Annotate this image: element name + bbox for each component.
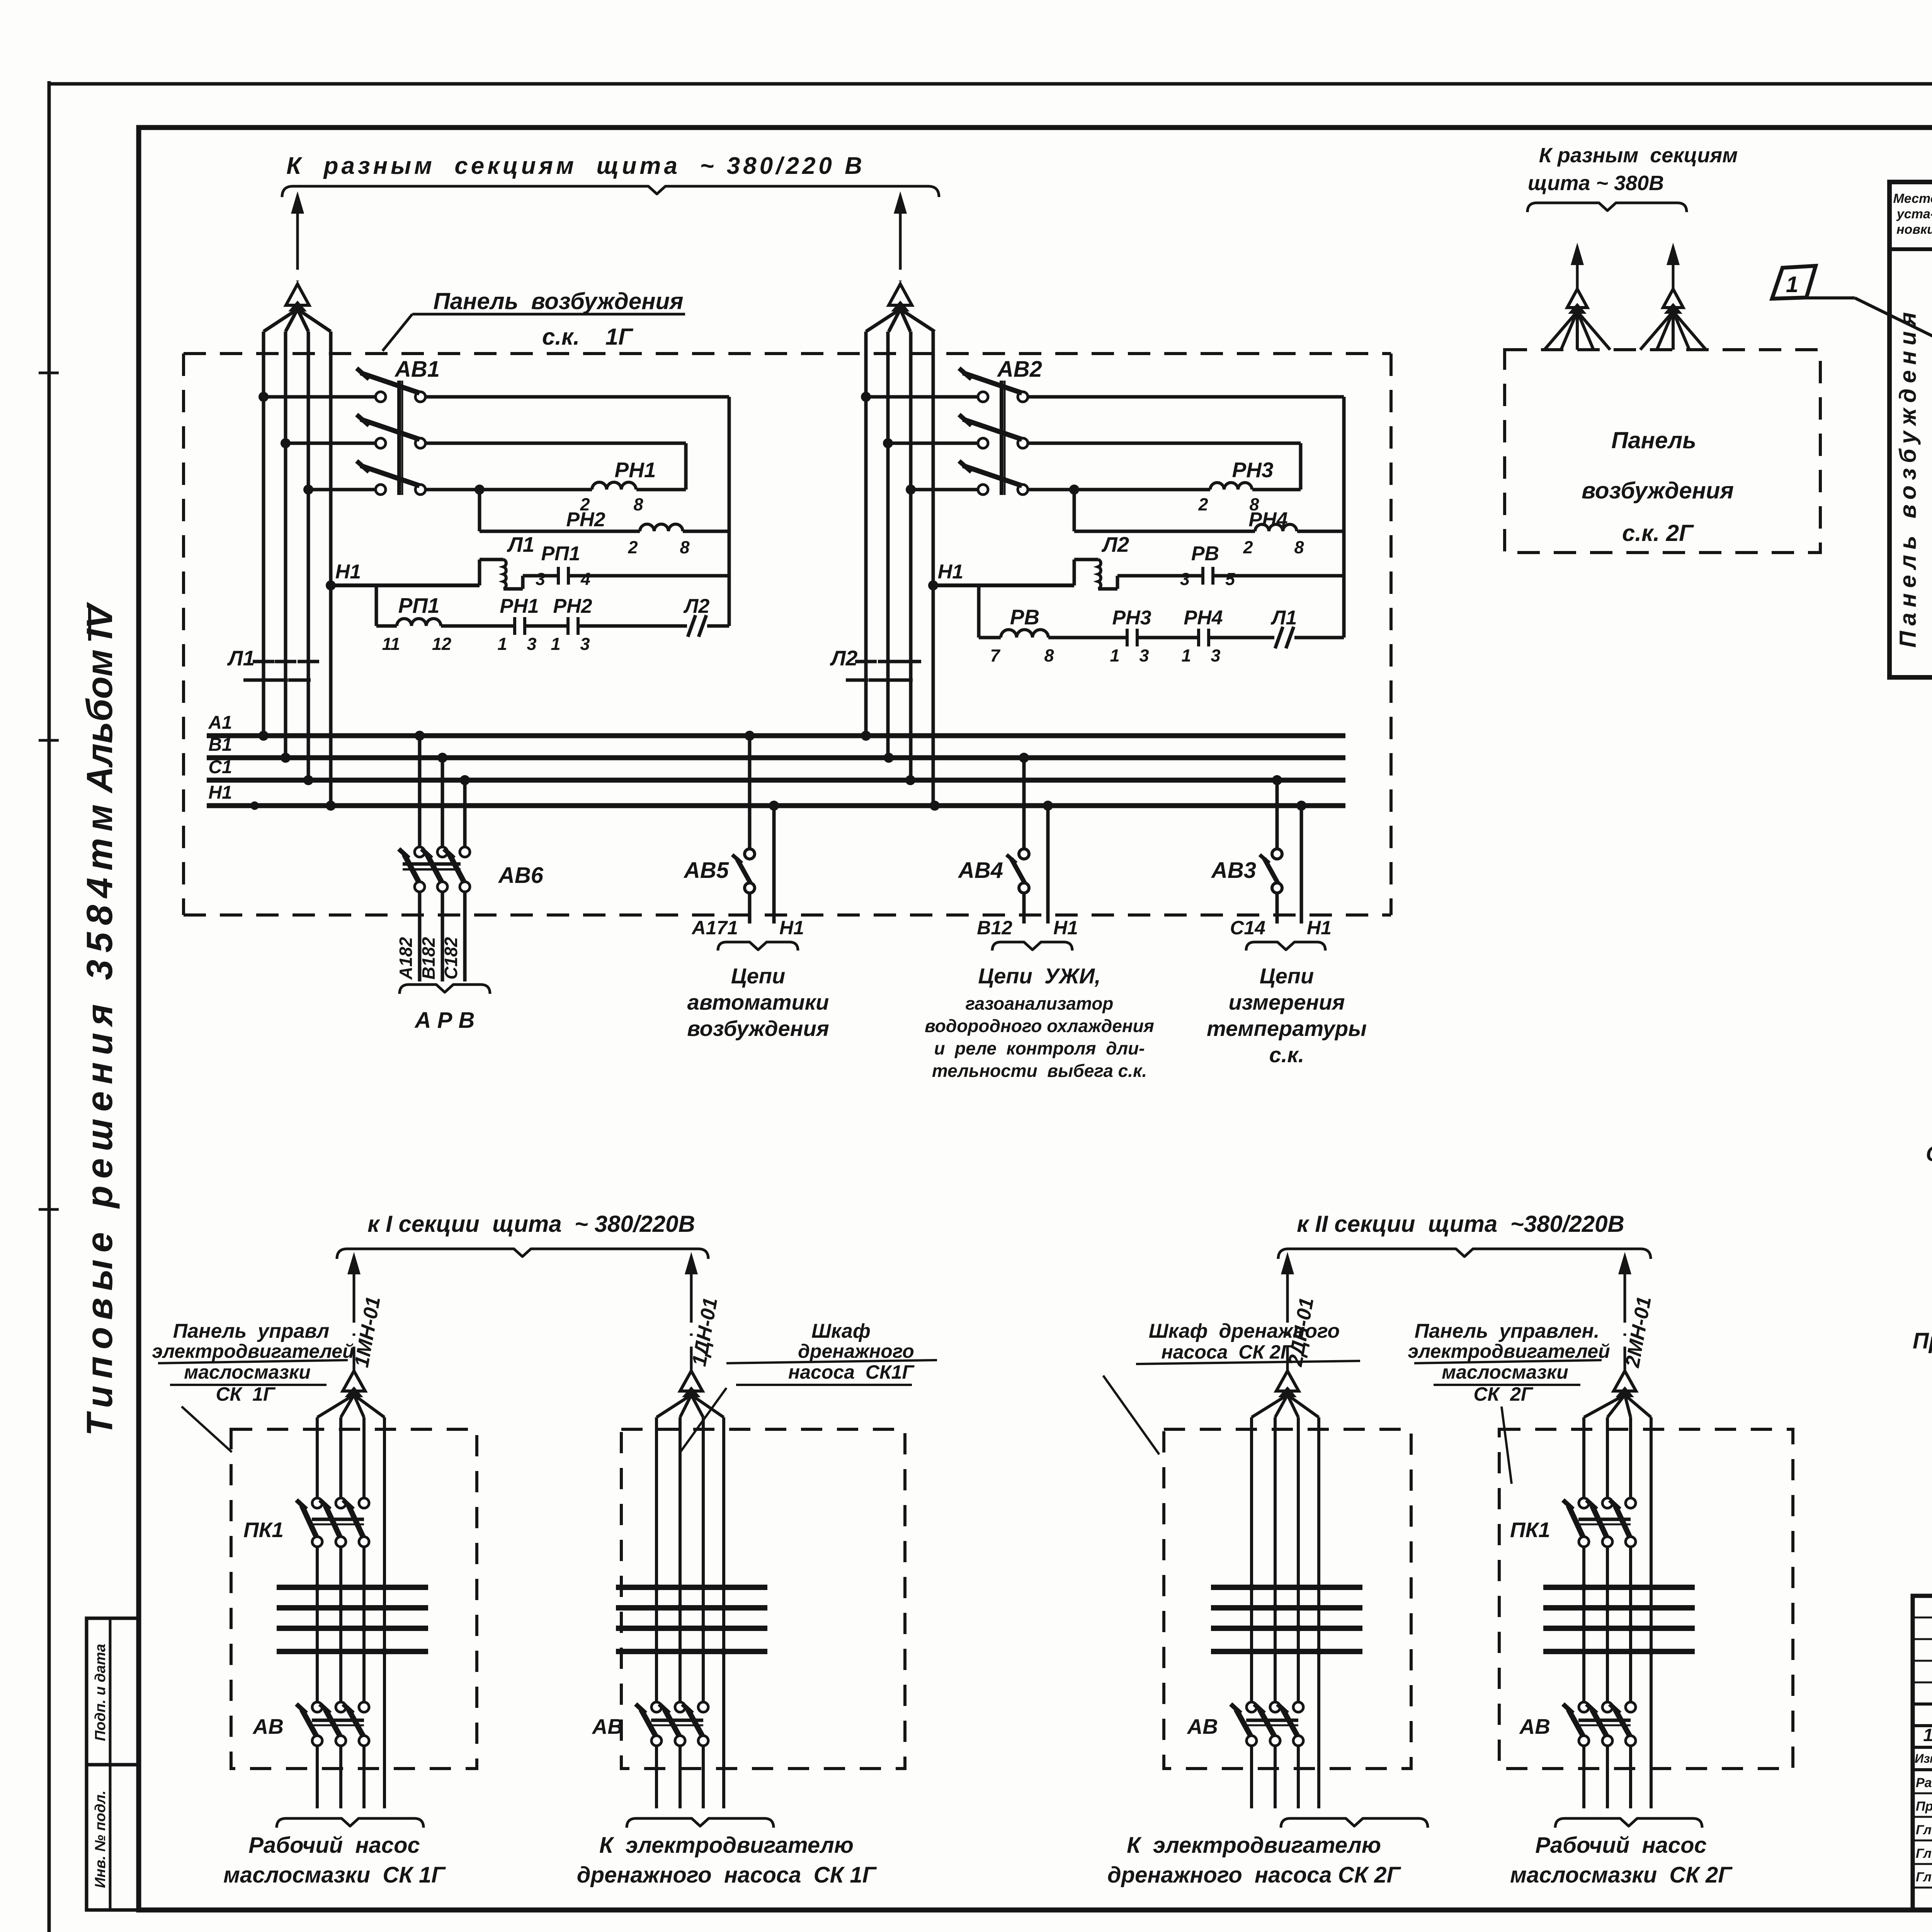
- svg-text:уста-: уста-: [1896, 207, 1932, 221]
- feeder arrow 1 (to switchboard sections): [291, 191, 304, 214]
- feeder fan wires: [1584, 1395, 1625, 1417]
- svg-text:4: 4: [580, 569, 590, 589]
- svg-text:СК 2Г: СК 2Г: [1473, 1383, 1533, 1405]
- feeder fan wires: [317, 1395, 354, 1417]
- left margin registration ticks: [39, 739, 59, 742]
- svg-text:См. примеч. 1: См. примеч. 1: [1926, 1141, 1932, 1166]
- svg-text:К электродвигателю: К электродвигателю: [599, 1833, 854, 1858]
- brace АВ4: [992, 942, 1072, 951]
- thermal overload bars: [616, 1585, 767, 1590]
- svg-text:1: 1: [497, 634, 507, 654]
- svg-text:Н1: Н1: [938, 561, 963, 583]
- svg-text:Примечание:: Примечание:: [1913, 1328, 1932, 1354]
- svg-text:3: 3: [1211, 646, 1220, 665]
- svg-text:3: 3: [527, 634, 536, 654]
- outgoing brace: [627, 1818, 774, 1828]
- svg-text:температуры: температуры: [1207, 1016, 1367, 1041]
- svg-text:дренажного насоса СК 1Г: дренажного насоса СК 1Г: [577, 1862, 877, 1888]
- svg-text:РП1: РП1: [541, 543, 580, 565]
- left margin stamp boxes: [87, 1618, 139, 1765]
- svg-text:Проверил: Проверил: [1916, 1799, 1932, 1814]
- row1 wire left: [425, 395, 729, 399]
- svg-text:Место: Место: [1893, 191, 1932, 206]
- svg-text:РН4: РН4: [1184, 607, 1223, 629]
- svg-text:РН1: РН1: [615, 458, 656, 482]
- svg-text:АВ: АВ: [1519, 1714, 1550, 1738]
- svg-text:С182: С182: [441, 937, 461, 980]
- svg-text:7: 7: [990, 646, 1000, 665]
- feeder arrow 2: [894, 191, 907, 214]
- excitation panel 1G dashed enclosure: [184, 352, 1391, 355]
- svg-text:АВ6: АВ6: [498, 863, 544, 888]
- outgoing brace: [1555, 1818, 1702, 1828]
- svg-text:Альбом IV: Альбом IV: [79, 602, 120, 794]
- brace under top feeder label: [282, 186, 939, 197]
- svg-text:Л1: Л1: [507, 532, 534, 556]
- svg-text:3: 3: [1139, 646, 1149, 665]
- brace АВ5: [718, 942, 798, 951]
- svg-text:1: 1: [551, 634, 560, 654]
- svg-text:Типовые решения 3584тм: Типовые решения 3584тм: [79, 798, 120, 1436]
- svg-text:маслосмазки: маслосмазки: [184, 1361, 311, 1383]
- svg-text:1: 1: [1181, 646, 1191, 665]
- svg-text:к II секции щита ~380/220В: к II секции щита ~380/220В: [1297, 1211, 1624, 1237]
- svg-text:Цепи: Цепи: [1260, 964, 1314, 988]
- feeder arrow 4: [1667, 243, 1680, 265]
- wire phase B drop left: [284, 332, 287, 758]
- svg-text:В1: В1: [208, 735, 232, 755]
- right rail right: [1342, 397, 1346, 638]
- feeder fan wires: [656, 1395, 691, 1417]
- svg-text:С14: С14: [1230, 917, 1265, 939]
- svg-text:Разраб.: Разраб.: [1916, 1776, 1932, 1790]
- svg-text:водородного охлаждения: водородного охлаждения: [925, 1016, 1154, 1036]
- circuit breaker АВ3: [1272, 775, 1282, 785]
- svg-text:возбуждения: возбуждения: [1582, 478, 1734, 503]
- svg-text:3: 3: [536, 569, 545, 589]
- equipment list table: [1889, 182, 1932, 677]
- svg-text:к I секции щита ~ 380/220В: к I секции щита ~ 380/220В: [367, 1211, 695, 1237]
- svg-text:дренажного насоса СК 2Г: дренажного насоса СК 2Г: [1107, 1862, 1401, 1888]
- svg-text:насоса СК 2Г: насоса СК 2Г: [1162, 1341, 1293, 1363]
- svg-text:8: 8: [1294, 537, 1304, 557]
- svg-text:2: 2: [1243, 537, 1253, 557]
- svg-text:РВ: РВ: [1010, 605, 1039, 629]
- svg-text:РН3: РН3: [1232, 458, 1274, 482]
- svg-text:электродвигателей: электродвигателей: [152, 1340, 354, 1362]
- svg-text:АВ: АВ: [592, 1714, 623, 1738]
- svg-text:Рабочий насос: Рабочий насос: [248, 1833, 420, 1858]
- feeder fan 3: [1544, 311, 1577, 350]
- svg-text:Л1: Л1: [227, 646, 255, 670]
- contactor coil Л2: [1073, 560, 1076, 585]
- motor feeder dashed box К электродвигателю дренажного насоса СК 1Г: [621, 1429, 905, 1769]
- title block: [1913, 1596, 1932, 1910]
- svg-text:измерения: измерения: [1229, 990, 1345, 1014]
- svg-text:Цепи УЖИ,: Цепи УЖИ,: [978, 964, 1100, 988]
- svg-text:РВ: РВ: [1191, 543, 1219, 565]
- svg-text:В182: В182: [418, 937, 439, 980]
- svg-text:Н1: Н1: [1053, 917, 1078, 939]
- svg-text:Л2: Л2: [683, 595, 710, 617]
- feeder arrow 3: [1571, 243, 1584, 265]
- svg-text:АВ4: АВ4: [957, 858, 1003, 883]
- breaker АВ2 tie bar: [1000, 381, 1003, 495]
- AB6 tie bar: [403, 862, 461, 866]
- svg-text:С1: С1: [208, 757, 232, 777]
- svg-text:автоматики: автоматики: [687, 990, 829, 1014]
- H1 bus stub dot: [250, 801, 259, 810]
- svg-text:3: 3: [1180, 569, 1190, 589]
- svg-text:К разным секциям: К разным секциям: [1539, 144, 1738, 167]
- svg-text:ПК1: ПК1: [243, 1518, 284, 1542]
- feeder arrow 1ДН-01: [685, 1252, 698, 1274]
- wire neutral drop right: [932, 332, 935, 806]
- svg-text:Н1: Н1: [1307, 917, 1332, 939]
- svg-text:Н1: Н1: [779, 917, 804, 939]
- vertical motor wires: [1582, 1417, 1585, 1498]
- feeder riser symbol 2: [889, 284, 912, 305]
- neutral wire for АВ4: [1043, 801, 1053, 811]
- svg-text:Гл.спец.: Гл.спец.: [1916, 1823, 1932, 1837]
- vertical motor wires: [316, 1417, 319, 1498]
- row2 wire right: [1028, 442, 1301, 445]
- svg-text:Шкаф дренажного: Шкаф дренажного: [1149, 1320, 1340, 1342]
- svg-text:А182: А182: [396, 937, 416, 980]
- leader to panel box: [383, 314, 412, 351]
- svg-text:АВ: АВ: [1187, 1714, 1218, 1738]
- svg-text:СК 1Г: СК 1Г: [216, 1383, 276, 1405]
- voltage relay coil РН4: [1074, 530, 1255, 533]
- excitation panel 2G dashed box: [1505, 350, 1820, 553]
- svg-text:11: 11: [382, 634, 400, 654]
- title block left table rows: [1913, 1617, 1932, 1619]
- vertical motor wires: [1250, 1417, 1253, 1702]
- row3 wire with voltage relay coil РН3: [1028, 488, 1210, 492]
- svg-text:тельности выбега с.к.: тельности выбега с.к.: [932, 1061, 1147, 1081]
- svg-text:12: 12: [432, 634, 451, 654]
- wire phase C drop right: [909, 332, 913, 780]
- svg-text:возбуждения: возбуждения: [687, 1016, 829, 1041]
- motor feeder dashed box Рабочий насос маслосмазки СК 1Г: [231, 1429, 477, 1769]
- feeder fan wires: [1252, 1395, 1287, 1417]
- svg-text:К электродвигателю: К электродвигателю: [1127, 1833, 1381, 1858]
- neutral wire for АВ5: [769, 801, 779, 811]
- feeder fan 4: [1640, 311, 1673, 350]
- svg-text:Л2: Л2: [830, 646, 858, 670]
- svg-text:АВ2: АВ2: [997, 357, 1042, 382]
- svg-text:Рабочий насос: Рабочий насос: [1535, 1833, 1707, 1858]
- circuit breaker AB6 (3-pole, ARV feed): [415, 731, 425, 741]
- svg-text:5: 5: [1225, 569, 1235, 589]
- svg-text:РН1: РН1: [500, 595, 539, 617]
- breaker АВ1 tie bar: [397, 381, 401, 495]
- feeder fan wires 1: [264, 309, 298, 332]
- svg-text:Цепи: Цепи: [731, 964, 785, 988]
- feeder riser symbol: [343, 1371, 365, 1391]
- svg-text:щита ~ 380В: щита ~ 380В: [1528, 172, 1664, 195]
- svg-text:Подп. и дата: Подп. и дата: [92, 1644, 109, 1741]
- svg-text:1: 1: [1923, 1725, 1932, 1745]
- feeder arrow 2МН-01: [1618, 1252, 1631, 1274]
- svg-text:К разным секциям щита ~ 38: К разным секциям щита ~ 380/220 В: [286, 153, 865, 179]
- relay chain row left: [375, 585, 378, 626]
- svg-text:Н1: Н1: [335, 561, 361, 583]
- svg-text:с.к.: с.к.: [1269, 1043, 1304, 1067]
- outgoing brace: [277, 1818, 423, 1828]
- circuit breaker АВ4: [1019, 753, 1029, 763]
- svg-text:Панель возбуждения: Панель возбуждения: [1895, 307, 1921, 648]
- svg-text:АВ1: АВ1: [394, 357, 440, 382]
- svg-text:РП1: РП1: [398, 594, 440, 617]
- svg-text:А Р В: А Р В: [414, 1008, 475, 1033]
- feeder riser symbol 3: [1567, 289, 1587, 308]
- circuit breaker АВ5: [745, 731, 755, 741]
- svg-text:ПК1: ПК1: [1510, 1518, 1550, 1542]
- svg-text:маслосмазки: маслосмазки: [1442, 1361, 1568, 1383]
- svg-text:Гл.инж.пр.: Гл.инж.пр.: [1916, 1846, 1932, 1861]
- wire phase A drop right: [864, 332, 868, 736]
- svg-text:РН2: РН2: [553, 595, 592, 617]
- svg-text:2: 2: [628, 537, 638, 557]
- wire phase B drop right: [886, 332, 890, 758]
- feeder riser symbol: [680, 1371, 702, 1391]
- svg-text:Л1: Л1: [1270, 607, 1297, 629]
- svg-text:Панель: Панель: [1611, 427, 1696, 453]
- feeder fan wires 2: [866, 309, 900, 332]
- svg-text:АВ5: АВ5: [683, 858, 729, 883]
- svg-text:новки: новки: [1896, 222, 1932, 237]
- drop to relay coil rail left: [474, 485, 485, 495]
- svg-text:электродвигателей: электродвигателей: [1408, 1340, 1610, 1362]
- svg-text:и реле контроля дли-: и реле контроля дли-: [934, 1038, 1145, 1058]
- svg-text:с.к. 2Г: с.к. 2Г: [1622, 520, 1694, 546]
- svg-text:Панель управлен.: Панель управлен.: [1415, 1320, 1600, 1342]
- svg-text:Шкаф: Шкаф: [811, 1320, 871, 1342]
- row1 wire right: [1028, 395, 1344, 399]
- svg-text:АВ3: АВ3: [1211, 858, 1256, 883]
- thermal overload bars: [1211, 1585, 1362, 1590]
- svg-text:3: 3: [580, 634, 590, 654]
- svg-text:В12: В12: [977, 917, 1012, 939]
- svg-text:Панель управл: Панель управл: [173, 1320, 330, 1342]
- svg-text:АВ: АВ: [252, 1714, 284, 1738]
- thermal overload bars: [277, 1585, 428, 1590]
- flag 1 with leader to table: [1772, 266, 1816, 299]
- feeder riser symbol: [1276, 1371, 1299, 1391]
- feeder riser symbol 1: [286, 284, 309, 305]
- svg-text:газоанализатор: газоанализатор: [966, 993, 1114, 1014]
- svg-text:Л2: Л2: [1101, 532, 1129, 556]
- relay chain row right: [977, 585, 981, 638]
- svg-text:1: 1: [1786, 272, 1798, 297]
- svg-text:маслосмазки СК 2Г: маслосмазки СК 2Г: [1510, 1862, 1733, 1888]
- brace II section: [1278, 1249, 1651, 1259]
- outgoing brace: [1281, 1818, 1428, 1828]
- drop to relay coil rail right: [1069, 485, 1079, 495]
- ARV brace: [400, 985, 490, 994]
- svg-text:1: 1: [1110, 646, 1119, 665]
- brace АВ3: [1246, 942, 1325, 951]
- feeder arrow 1МН-01: [347, 1252, 361, 1274]
- svg-text:насоса СК1Г: насоса СК1Г: [788, 1361, 915, 1383]
- wire phase C drop left: [307, 332, 310, 780]
- voltage relay coil РН2: [480, 530, 640, 533]
- contactor coil Л1: [478, 560, 481, 585]
- svg-text:Н1: Н1: [208, 782, 232, 803]
- bus junction dots: [259, 731, 269, 741]
- svg-text:маслосмазки СК 1Г: маслосмазки СК 1Г: [223, 1862, 446, 1888]
- svg-text:дренажного: дренажного: [798, 1340, 914, 1362]
- sheet outer border: [48, 81, 51, 1932]
- row3 wire with voltage relay coil РН1: [425, 488, 592, 492]
- svg-text:8: 8: [1044, 646, 1054, 665]
- svg-text:РН2: РН2: [566, 509, 605, 531]
- svg-text:Инв. № подл.: Инв. № подл.: [92, 1791, 109, 1888]
- feeder arrow 2ДН-01: [1281, 1252, 1294, 1274]
- svg-text:Гл.спец.сек: Гл.спец.сек: [1916, 1870, 1932, 1884]
- row2 wire left: [425, 442, 686, 445]
- right rail left: [728, 397, 731, 626]
- wire neutral drop left: [329, 332, 333, 806]
- svg-text:2: 2: [1198, 495, 1208, 514]
- brace I section: [337, 1249, 708, 1259]
- svg-text:Панель возбуждения: Панель возбуждения: [434, 288, 684, 314]
- svg-text:А171: А171: [691, 917, 738, 939]
- svg-text:8: 8: [633, 495, 643, 514]
- svg-text:с.к. 1Г: с.к. 1Г: [542, 324, 634, 350]
- svg-text:8: 8: [680, 537, 689, 557]
- vertical motor wires: [655, 1417, 658, 1702]
- thermal overload bars: [1543, 1585, 1695, 1590]
- wire phase A drop left: [262, 332, 265, 736]
- feeder riser symbol 4: [1663, 289, 1683, 308]
- svg-text:Изм.: Изм.: [1915, 1752, 1932, 1765]
- svg-text:А1: А1: [208, 713, 232, 733]
- motor feeder dashed box К электродвигателю дренажного насоса СК 2Г: [1164, 1429, 1411, 1769]
- svg-text:РН3: РН3: [1112, 607, 1151, 629]
- brace panel 2G feeders: [1527, 203, 1687, 212]
- motor feeder dashed box Рабочий насос маслосмазки СК 2Г: [1499, 1429, 1793, 1769]
- feeder riser symbol: [1614, 1371, 1636, 1391]
- neutral wire for АВ3: [1296, 801, 1306, 811]
